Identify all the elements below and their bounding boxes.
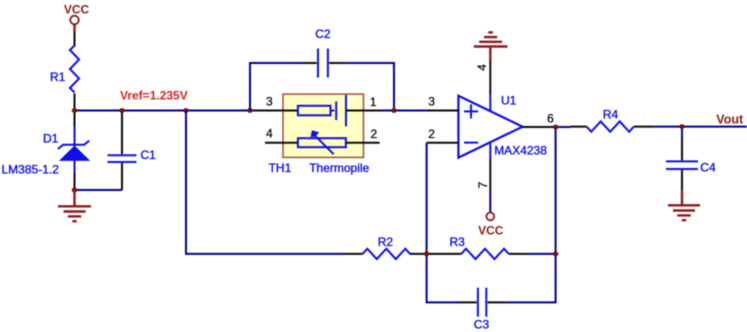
wire C3 branch left [427, 254, 460, 303]
svg-text:C3: C3 [474, 318, 490, 332]
svg-text:D1: D1 [43, 132, 59, 146]
junction rail/R1 [72, 108, 78, 113]
svg-text:4: 4 [266, 127, 273, 141]
U1 pin 2 (-) [427, 127, 459, 143]
wire C1 bottom to ground junction [75, 189, 123, 191]
capacitor C2 [302, 27, 344, 78]
U1 pin 3 (+) [427, 95, 458, 111]
junction rail/C2 left [247, 108, 253, 113]
junction rail/C1 [119, 108, 125, 113]
resistor R1 [50, 32, 79, 111]
wire U1 pin7 to VCC port [489, 193, 491, 213]
ground below C4 [668, 191, 700, 220]
svg-text:7: 7 [476, 182, 490, 189]
capacitor C1 [108, 111, 157, 191]
junction at D1/C1 ground node [72, 188, 78, 193]
TH1 pin 1 [346, 95, 380, 111]
resistor R3 [427, 235, 527, 259]
junction R2/R3/C3 [424, 252, 430, 257]
svg-text:2: 2 [428, 127, 435, 141]
svg-text:VCC: VCC [64, 2, 90, 16]
wire C2 branch left [250, 63, 302, 111]
capacitor C3 [460, 288, 506, 332]
wire TH1 pin1 to U1 pin3 [380, 110, 427, 112]
wire Vout node to right edge [682, 126, 747, 128]
U1 pin 6 (output) [523, 112, 556, 128]
junction rail/C2 right [391, 108, 397, 113]
junction R3/output-down/C3 [553, 252, 559, 257]
wire R3 to output-down wire [527, 253, 556, 255]
wire C2 branch right [344, 63, 394, 111]
svg-text:1: 1 [370, 95, 377, 109]
op-amp U1 [458, 94, 522, 158]
resistor R4 [570, 107, 653, 132]
wire R4 to Vout node [654, 126, 682, 128]
svg-text:2: 2 [371, 127, 378, 141]
ground above U1 (inverted) [474, 32, 508, 61]
component TH1 thermopile body [283, 94, 364, 157]
wire down from rail to bottom rail [186, 111, 345, 254]
TH1 pin 4 [265, 127, 298, 143]
svg-text:Thermopile: Thermopile [309, 161, 369, 175]
junction output node [553, 125, 559, 130]
junction Vout node [679, 124, 685, 129]
svg-text:Vout: Vout [716, 112, 744, 126]
U1 pin 7 (bottom, to VCC) [476, 143, 490, 193]
svg-text:Vref=1.235V: Vref=1.235V [120, 89, 188, 103]
U1 pin 4 (top, to ground) [475, 61, 490, 111]
wire main rail [75, 110, 259, 112]
svg-text:MAX4238: MAX4238 [494, 144, 547, 158]
TH1 thermistor element [298, 130, 346, 154]
svg-text:6: 6 [547, 112, 554, 126]
svg-text:LM385-1.2: LM385-1.2 [2, 163, 60, 177]
zener diode D1 [43, 111, 89, 191]
svg-text:U1: U1 [501, 94, 517, 108]
TH1 pin 2 [346, 127, 380, 143]
svg-text:TH1: TH1 [269, 161, 292, 175]
resistor R2 [345, 235, 427, 259]
svg-text:3: 3 [428, 95, 435, 109]
wire output node [556, 127, 571, 254]
TH1 thermopile element (resistor + cell) [298, 95, 346, 126]
power port VCC top-left [64, 2, 90, 32]
svg-text:R1: R1 [50, 70, 66, 84]
svg-text:4: 4 [475, 64, 489, 71]
junction rail/feedback-down wire [183, 108, 189, 113]
svg-text:3: 3 [266, 95, 273, 109]
svg-text:R2: R2 [378, 235, 394, 249]
svg-text:C2: C2 [315, 27, 331, 41]
wire Vout node down to C4 [681, 127, 683, 140]
power port VCC below U1 [478, 213, 504, 238]
svg-text:R4: R4 [603, 107, 619, 121]
ground below D1 [58, 190, 91, 221]
svg-text:C1: C1 [141, 148, 157, 162]
wire C3 branch right [506, 254, 556, 303]
capacitor C4 [666, 140, 716, 191]
svg-text:VCC: VCC [478, 224, 504, 238]
TH1 pin 3 [256, 95, 298, 111]
wire feedback from U1 pin2 down [426, 143, 428, 254]
svg-text:R3: R3 [450, 235, 466, 249]
svg-text:C4: C4 [700, 160, 716, 174]
